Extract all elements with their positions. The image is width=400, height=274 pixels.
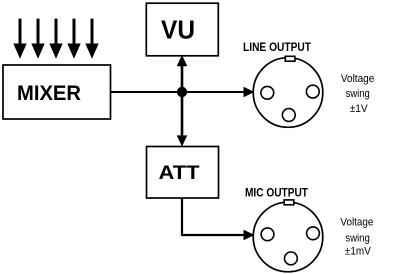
svg-text:swing: swing — [345, 233, 370, 245]
svg-text:±1mV: ±1mV — [345, 246, 372, 258]
arrowhead into LINE OUTPUT — [244, 87, 255, 97]
pin bottom — [282, 109, 295, 122]
arrowhead into ATT — [177, 135, 188, 146]
pin right — [306, 85, 319, 98]
pin left — [261, 228, 274, 241]
pin right — [307, 227, 320, 240]
wire MIXER to LINE OUTPUT (horizontal) — [111, 91, 246, 93]
block MIXER — [3, 65, 111, 119]
XLR connector MIC OUTPUT — [253, 200, 323, 272]
svg-text:MIC OUTPUT: MIC OUTPUT — [245, 186, 309, 199]
svg-text:VU: VU — [161, 15, 195, 45]
pin left — [261, 86, 274, 99]
label Voltage swing ±1V — [341, 73, 375, 115]
label Voltage swing ±1mV — [340, 217, 373, 258]
input arrow 5 — [85, 19, 98, 59]
svg-text:Voltage: Voltage — [341, 73, 375, 85]
input arrow 1 — [13, 19, 26, 59]
arrowhead into VU — [177, 55, 188, 66]
svg-text:MIXER: MIXER — [17, 82, 81, 105]
XLR connector LINE OUTPUT — [253, 56, 323, 127]
wire junction to ATT (vertical down) — [181, 92, 184, 137]
input arrow 2 — [31, 19, 44, 59]
pin bottom — [285, 252, 298, 265]
junction node — [177, 87, 187, 97]
svg-text:swing: swing — [346, 88, 370, 100]
arrowhead into MIC OUTPUT — [244, 230, 255, 240]
svg-text:LINE OUTPUT: LINE OUTPUT — [243, 41, 312, 54]
block ATT — [147, 147, 219, 199]
input arrow 4 — [67, 19, 80, 59]
svg-text:Voltage: Voltage — [340, 217, 373, 229]
input arrow 3 — [49, 19, 62, 59]
svg-text:±1V: ±1V — [350, 103, 369, 115]
wire junction to VU (vertical up) — [181, 64, 184, 92]
wire ATT to MIC OUTPUT (down then right) — [182, 198, 245, 235]
svg-text:ATT: ATT — [159, 162, 200, 184]
block VU — [146, 3, 218, 56]
